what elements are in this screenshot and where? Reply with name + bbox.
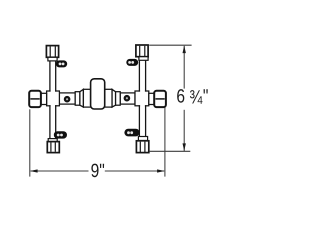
- riser pipe bottom-right: [139, 105, 145, 142]
- coupling ring left: [75, 92, 80, 106]
- extension line left of 9 inch dimension: [29, 109, 31, 176]
- valve body center: [91, 79, 105, 109]
- taper left: [80, 89, 84, 107]
- arrowhead up of 6 3/4 inch dimension: [183, 46, 186, 54]
- extension line bottom of 6 3/4 inch dimension: [149, 150, 190, 152]
- dimension line 6 3/4 inch lower segment: [183, 110, 185, 151]
- collar left: [83, 89, 90, 107]
- dimension line 9 inch left segment: [31, 170, 89, 172]
- cap top-right: [136, 45, 148, 57]
- dimension line 6 3/4 inch upper segment: [183, 46, 185, 89]
- extension line top of 6 3/4 inch dimension: [149, 44, 191, 46]
- lever handle top-left: [56, 60, 67, 67]
- lever handle top-right: [126, 59, 138, 66]
- extension line right of 9 inch dimension: [164, 108, 166, 177]
- cap bottom-left: [47, 142, 59, 153]
- riser pipe top-left: [50, 61, 56, 93]
- bonnet neck top-right: [139, 57, 148, 61]
- neck left: [41, 93, 47, 104]
- svg-text:6: 6: [176, 86, 185, 107]
- riser pipe top-right: [139, 59, 145, 92]
- cap bottom-right: [136, 141, 148, 153]
- hex nut right: [154, 91, 166, 107]
- riser pipe bottom-left: [50, 105, 56, 142]
- coupling ring right: [116, 92, 121, 106]
- screw hole right: [124, 95, 131, 102]
- manifold tube left: [59, 93, 75, 104]
- bonnet neck bottom-left: [48, 139, 57, 142]
- collar right: [105, 89, 112, 107]
- dimension line 9 inch right segment: [105, 170, 164, 172]
- svg-text:¾: ¾: [189, 87, 203, 108]
- arrowhead down of 6 3/4 inch dimension: [183, 143, 186, 151]
- tee block left: [47, 91, 60, 106]
- screw hole left: [64, 96, 71, 103]
- lever handle bottom-right: [124, 129, 139, 137]
- neck right: [149, 93, 154, 104]
- lever handle bottom-left: [54, 131, 67, 138]
- tee block right: [135, 91, 149, 106]
- hex nut left: [29, 91, 41, 107]
- cap top-left: [46, 46, 58, 58]
- svg-text:9": 9": [91, 161, 105, 182]
- svg-text:": ": [203, 86, 209, 107]
- bonnet neck top-left: [48, 57, 57, 61]
- arrowhead left of 9 inch dimension: [30, 169, 38, 172]
- manifold tube right: [120, 93, 135, 104]
- taper right: [112, 89, 116, 107]
- bonnet neck bottom-right: [138, 137, 147, 141]
- arrowhead right of 9 inch dimension: [157, 169, 165, 172]
